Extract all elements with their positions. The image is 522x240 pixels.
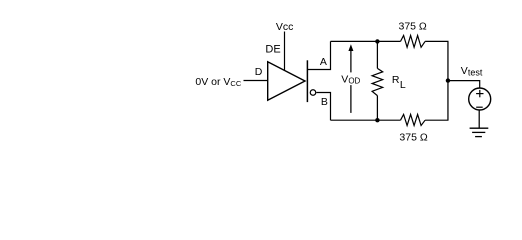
resistor RL: [372, 68, 383, 95]
inversion bubble: [310, 90, 316, 96]
wire A output: [308, 41, 331, 69]
wire to Vtest: [448, 81, 480, 89]
wire bottom rail right: [425, 119, 448, 121]
output bar: [306, 60, 308, 102]
source Vtest: [469, 88, 491, 110]
svg-text:B: B: [321, 96, 328, 108]
wire D input: [244, 80, 269, 82]
wire bottom rail left: [331, 119, 401, 121]
resistor 375 ohm top: [401, 36, 426, 48]
wire B output: [316, 93, 330, 121]
svg-text:375 Ω: 375 Ω: [399, 21, 427, 33]
wire RL top lead: [376, 41, 378, 68]
wire right vertical: [447, 41, 449, 120]
junction top node: [375, 39, 379, 43]
wire top rail right: [425, 40, 448, 42]
junction right node: [446, 78, 450, 82]
svg-text:D: D: [255, 66, 263, 78]
driver U1: [268, 62, 305, 100]
svg-text:375 Ω: 375 Ω: [399, 131, 427, 143]
svg-text:Vcc: Vcc: [276, 21, 294, 33]
svg-text:Vtest: Vtest: [461, 65, 483, 78]
wire top rail left: [331, 40, 401, 42]
resistor 375 ohm bottom: [401, 114, 426, 125]
wire Vcc/DE enable: [284, 32, 286, 71]
arrow Vod: [350, 49, 352, 113]
svg-text:DE: DE: [265, 44, 280, 56]
wire source to ground: [478, 110, 480, 128]
svg-text:A: A: [320, 56, 327, 68]
junction bottom node: [375, 118, 379, 122]
wire RL bottom lead: [376, 96, 378, 121]
ground: [470, 127, 489, 129]
